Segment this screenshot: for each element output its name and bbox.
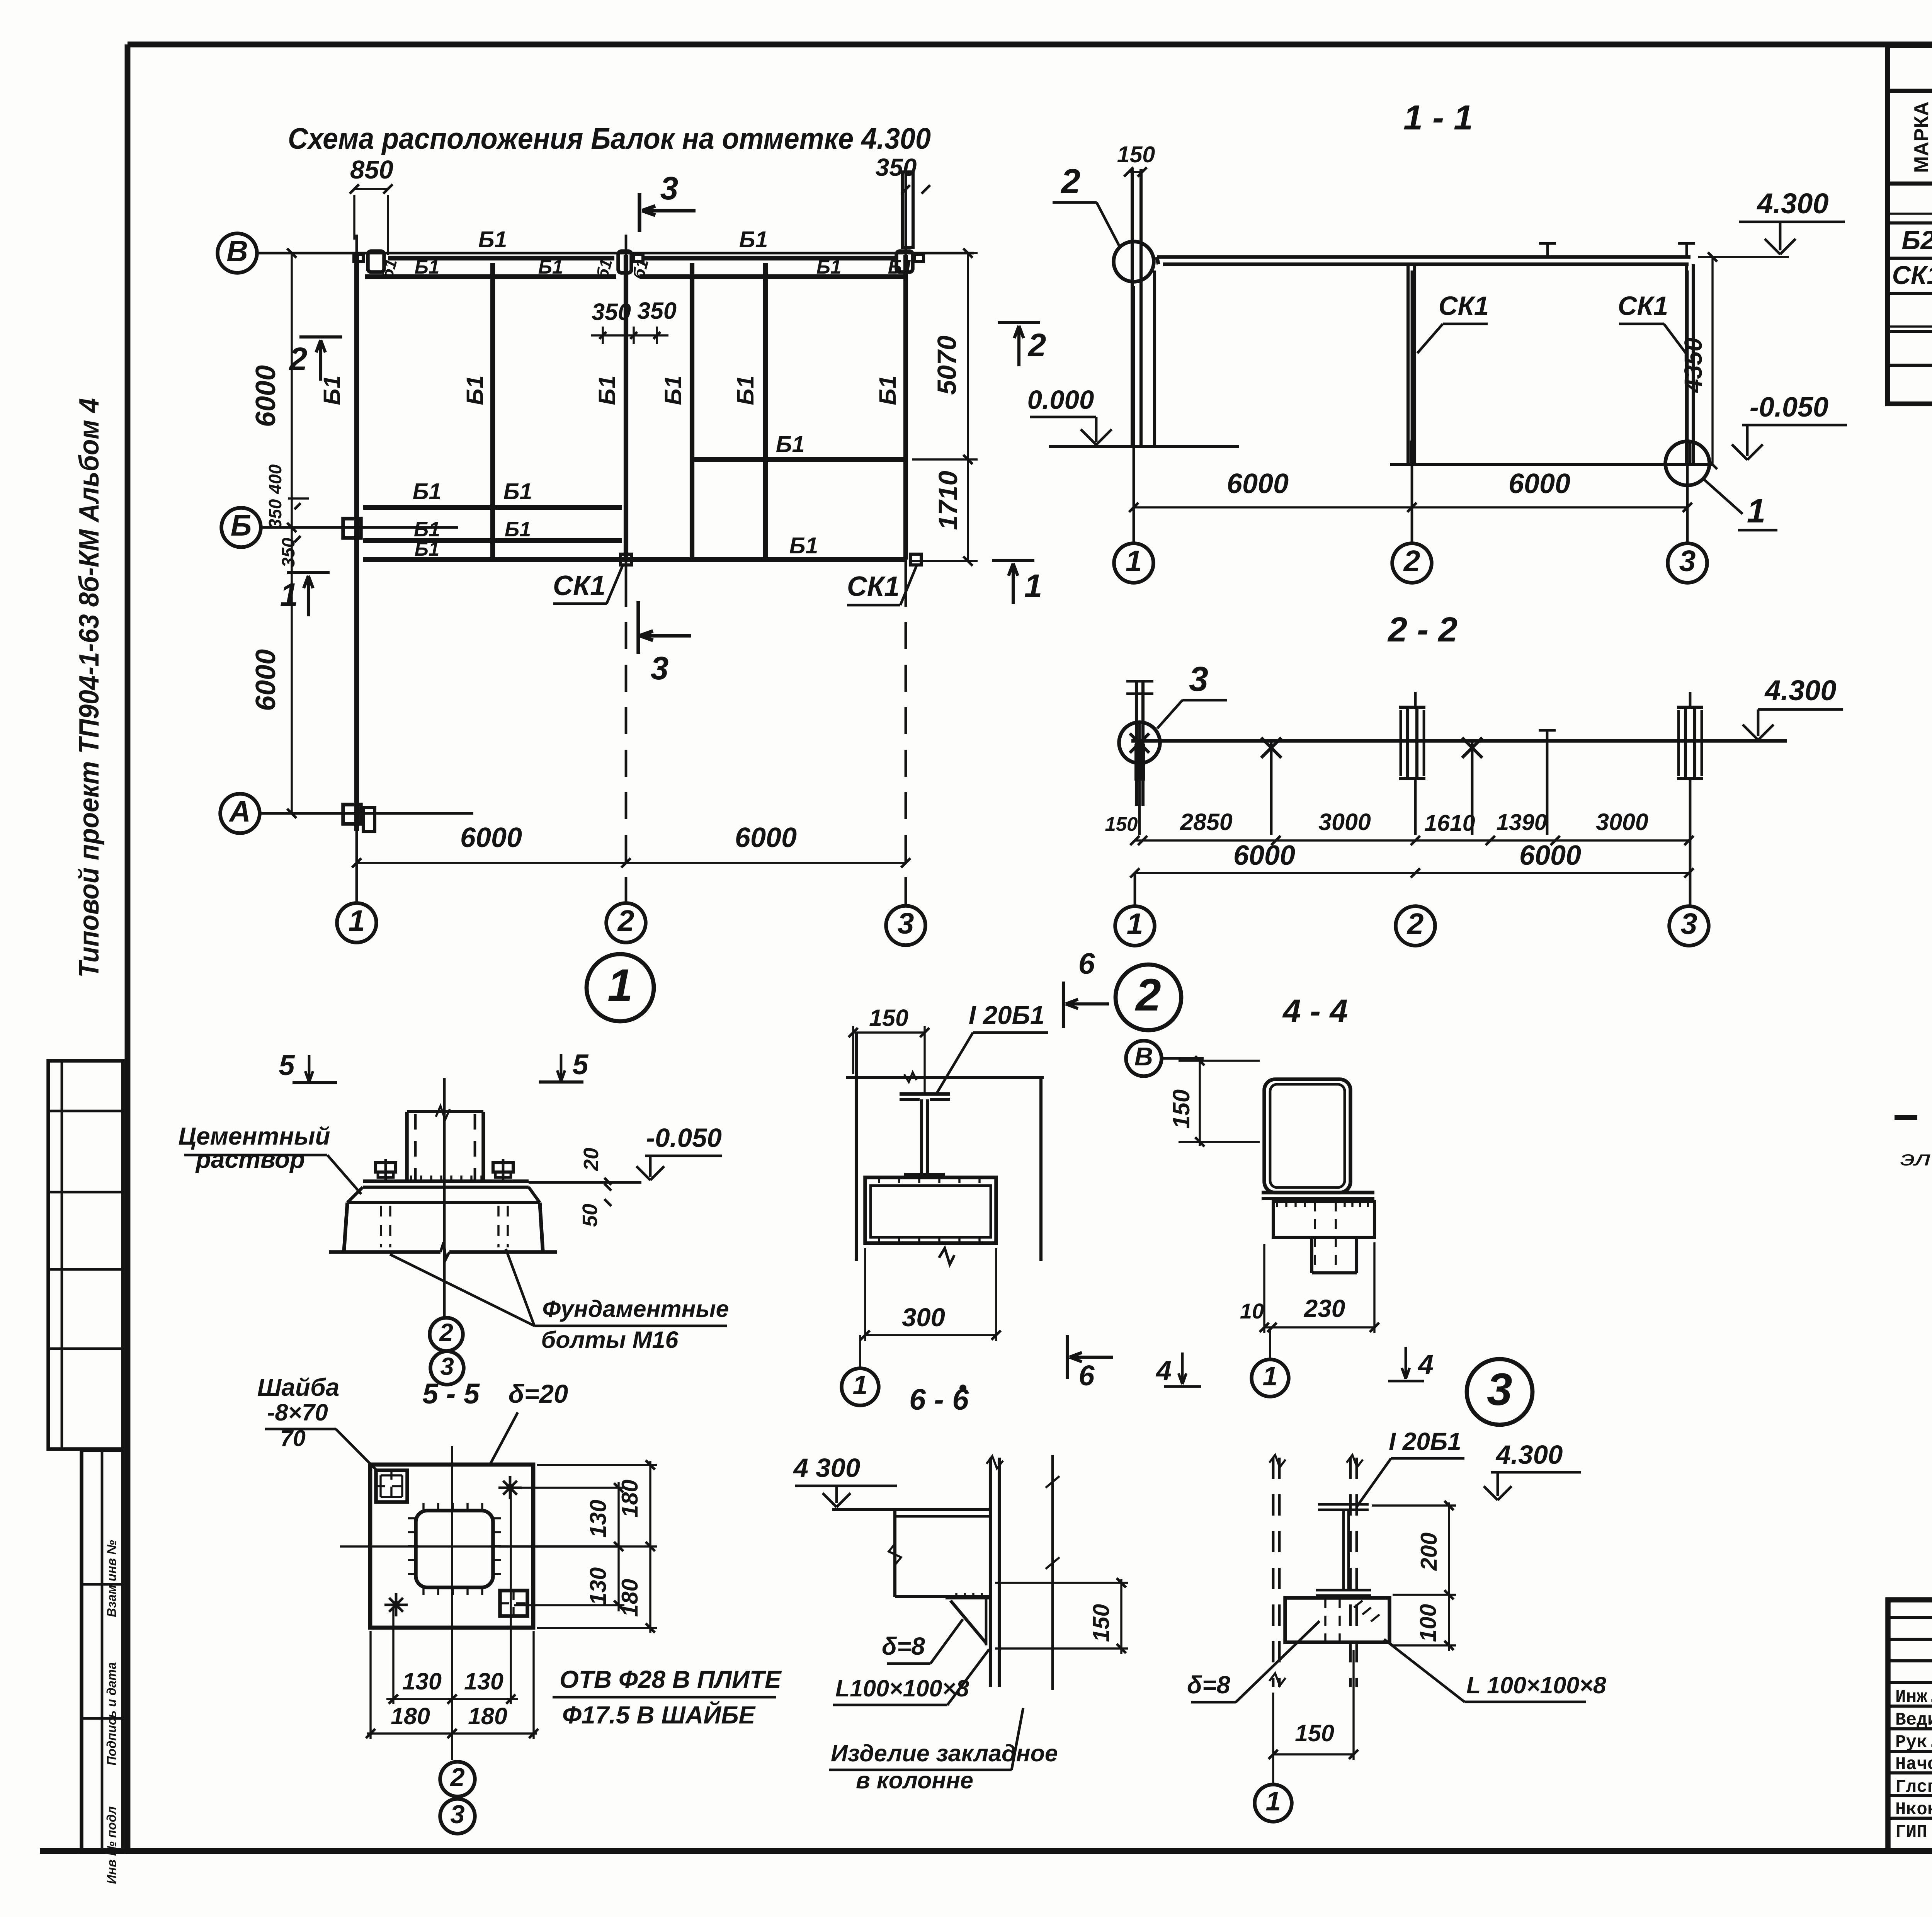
svg-text:СК1: СК1 bbox=[1618, 291, 1668, 321]
svg-text:180: 180 bbox=[468, 1703, 507, 1729]
svg-text:Б1: Б1 bbox=[816, 256, 841, 278]
svg-text:1: 1 bbox=[853, 1370, 868, 1400]
svg-text:Начотд: Начотд bbox=[1895, 1754, 1932, 1774]
svg-text:Шайба: Шайба bbox=[257, 1373, 340, 1401]
svg-text:350: 350 bbox=[592, 299, 631, 325]
svg-text:3: 3 bbox=[1487, 1364, 1512, 1415]
svg-text:δ=8: δ=8 bbox=[1187, 1671, 1230, 1699]
svg-text:-0.050: -0.050 bbox=[1750, 392, 1828, 423]
svg-text:Схема расположения Балок на: Схема расположения Балок на отметке 4.30… bbox=[288, 122, 931, 155]
svg-text:δ=8: δ=8 bbox=[882, 1632, 925, 1660]
svg-text:Вединк: Вединк bbox=[1895, 1710, 1932, 1730]
svg-text:350: 350 bbox=[637, 298, 677, 324]
svg-text:2 - 2: 2 - 2 bbox=[1387, 611, 1458, 649]
svg-text:5070: 5070 bbox=[932, 335, 962, 395]
svg-text:3: 3 bbox=[1679, 544, 1696, 578]
svg-text:Б1: Б1 bbox=[538, 256, 563, 278]
svg-text:Б1: Б1 bbox=[462, 375, 488, 405]
svg-text:4.300: 4.300 bbox=[1495, 1440, 1563, 1470]
svg-text:Инв № подл: Инв № подл bbox=[104, 1807, 119, 1884]
svg-text:Б1: Б1 bbox=[789, 533, 818, 558]
svg-text:Фундаментные: Фундаментные bbox=[542, 1296, 729, 1322]
svg-text:1: 1 bbox=[1126, 544, 1142, 578]
svg-text:В: В bbox=[1134, 1042, 1153, 1071]
svg-text:2: 2 bbox=[1027, 327, 1046, 363]
svg-text:Изделие закладное: Изделие закладное bbox=[831, 1740, 1058, 1766]
svg-text:4: 4 bbox=[1417, 1349, 1434, 1380]
svg-text:СК1: СК1 bbox=[1892, 261, 1932, 290]
svg-text:4 300: 4 300 bbox=[793, 1453, 861, 1483]
svg-text:200: 200 bbox=[1416, 1533, 1442, 1571]
svg-text:А: А bbox=[228, 795, 251, 828]
svg-text:Инж.: Инж. bbox=[1895, 1687, 1932, 1707]
svg-text:180: 180 bbox=[617, 1579, 643, 1617]
svg-text:электродами Э42 по ГОСТ 94: электродами Э42 по ГОСТ 9467-75. bbox=[1900, 1147, 1932, 1170]
svg-text:1710: 1710 bbox=[933, 471, 963, 530]
svg-text:Б1: Б1 bbox=[415, 256, 439, 278]
svg-text:150: 150 bbox=[1088, 1604, 1114, 1642]
svg-text:Б: Б bbox=[231, 509, 252, 542]
svg-text:СК1: СК1 bbox=[1439, 291, 1489, 321]
svg-text:2: 2 bbox=[449, 1763, 464, 1792]
svg-text:4: 4 bbox=[1155, 1356, 1172, 1387]
svg-text:0.000: 0.000 bbox=[1027, 385, 1094, 415]
svg-text:2850: 2850 bbox=[1180, 809, 1233, 835]
svg-text:Ф17.5 В ШАЙБЕ: Ф17.5 В ШАЙБЕ bbox=[562, 1700, 756, 1729]
svg-text:3: 3 bbox=[1681, 907, 1697, 941]
svg-text:Б1: Б1 bbox=[503, 479, 532, 504]
svg-text:Подпись и дата: Подпись и дата bbox=[104, 1662, 119, 1766]
svg-text:350: 350 bbox=[265, 499, 285, 529]
svg-text:ОТВ Ф28 В ПЛИТЕ: ОТВ Ф28 В ПЛИТЕ bbox=[560, 1666, 782, 1693]
svg-text:6000: 6000 bbox=[250, 649, 281, 711]
svg-text:1: 1 bbox=[280, 577, 298, 613]
svg-text:раствор: раствор bbox=[195, 1145, 305, 1173]
svg-text:400: 400 bbox=[265, 464, 285, 494]
svg-text:6000: 6000 bbox=[460, 822, 522, 853]
svg-text:3: 3 bbox=[898, 907, 914, 940]
svg-text:2: 2 bbox=[1406, 907, 1424, 941]
svg-text:2: 2 bbox=[439, 1318, 453, 1346]
svg-text:300: 300 bbox=[902, 1303, 945, 1332]
svg-text:5: 5 bbox=[572, 1048, 589, 1080]
svg-text:Б1: Б1 bbox=[660, 375, 686, 405]
svg-text:6000: 6000 bbox=[1233, 840, 1295, 871]
svg-text:150: 150 bbox=[1105, 813, 1138, 835]
svg-text:150: 150 bbox=[1168, 1089, 1194, 1129]
svg-text:Б1: Б1 bbox=[415, 538, 439, 560]
svg-text:В: В bbox=[226, 235, 248, 268]
svg-text:180: 180 bbox=[391, 1703, 430, 1729]
svg-text:2: 2 bbox=[1060, 162, 1080, 201]
svg-text:-8×70: -8×70 bbox=[267, 1399, 328, 1426]
svg-text:в колонне: в колонне bbox=[856, 1767, 973, 1793]
svg-text:2: 2 bbox=[617, 904, 634, 937]
svg-text:6000: 6000 bbox=[1519, 840, 1581, 871]
svg-text:1: 1 bbox=[1127, 907, 1143, 941]
svg-text:2: 2 bbox=[289, 341, 308, 377]
svg-text:3: 3 bbox=[660, 170, 679, 206]
svg-text:6000: 6000 bbox=[250, 365, 281, 427]
svg-text:150: 150 bbox=[1117, 142, 1155, 167]
svg-text:3: 3 bbox=[1189, 660, 1208, 699]
svg-text:130: 130 bbox=[402, 1668, 442, 1694]
svg-text:50: 50 bbox=[578, 1204, 602, 1227]
svg-text:130: 130 bbox=[464, 1668, 503, 1694]
svg-text:L100×100×8: L100×100×8 bbox=[835, 1675, 969, 1701]
svg-text:1: 1 bbox=[349, 904, 365, 937]
svg-text:Б1: Б1 bbox=[594, 375, 620, 405]
svg-text:10: 10 bbox=[1240, 1299, 1264, 1323]
svg-text:180: 180 bbox=[617, 1480, 643, 1518]
svg-text:Б1: Б1 bbox=[888, 256, 913, 278]
svg-text:Б1: Б1 bbox=[413, 479, 442, 504]
svg-text:2: 2 bbox=[1403, 544, 1420, 578]
svg-text:Б1: Б1 bbox=[739, 227, 768, 252]
svg-text:1: 1 bbox=[1266, 1786, 1281, 1816]
svg-text:СК1: СК1 bbox=[847, 571, 900, 602]
svg-text:6000: 6000 bbox=[1227, 468, 1289, 499]
svg-text:2: 2 bbox=[1135, 970, 1161, 1021]
svg-text:1: 1 bbox=[1263, 1361, 1278, 1391]
svg-text:1: 1 bbox=[1747, 492, 1765, 530]
svg-text:1610: 1610 bbox=[1424, 810, 1475, 836]
svg-text:4.300: 4.300 bbox=[1756, 187, 1828, 219]
svg-text:Взам инв №: Взам инв № bbox=[104, 1540, 119, 1617]
svg-text:Б1: Б1 bbox=[478, 227, 507, 252]
svg-text:1390: 1390 bbox=[1496, 810, 1547, 835]
svg-text:130: 130 bbox=[585, 1500, 611, 1538]
svg-text:3: 3 bbox=[651, 650, 669, 686]
svg-text:850: 850 bbox=[350, 155, 393, 184]
svg-text:Типовой проект ТП904-1-63 8б-К: Типовой проект ТП904-1-63 8б-КМ Альбом 4 bbox=[74, 398, 105, 978]
svg-text:Б1: Б1 bbox=[319, 375, 345, 405]
svg-text:3000: 3000 bbox=[1318, 809, 1371, 835]
svg-text:100: 100 bbox=[1415, 1604, 1441, 1642]
svg-text:1: 1 bbox=[607, 960, 633, 1011]
svg-text:-0.050: -0.050 bbox=[646, 1123, 722, 1153]
svg-text:150: 150 bbox=[1295, 1720, 1334, 1746]
svg-text:СК1: СК1 bbox=[553, 570, 605, 601]
svg-text:5: 5 bbox=[279, 1049, 295, 1081]
svg-text:Б1: Б1 bbox=[414, 518, 440, 541]
svg-text:6000: 6000 bbox=[1509, 468, 1570, 499]
svg-text:3: 3 bbox=[450, 1800, 464, 1829]
svg-text:5 - 5: 5 - 5 bbox=[422, 1378, 480, 1410]
svg-text:I 20Б1: I 20Б1 bbox=[1389, 1427, 1461, 1455]
svg-text:130: 130 bbox=[585, 1567, 611, 1606]
svg-text:болты М16: болты М16 bbox=[541, 1327, 679, 1353]
svg-text:Б1: Б1 bbox=[732, 375, 759, 405]
svg-text:Б1: Б1 bbox=[776, 432, 805, 457]
svg-text:1 - 1: 1 - 1 bbox=[1403, 99, 1473, 137]
svg-text:6000: 6000 bbox=[735, 822, 797, 853]
svg-text:L 100×100×8: L 100×100×8 bbox=[1466, 1672, 1606, 1698]
svg-text:4350: 4350 bbox=[1679, 338, 1707, 393]
svg-text:350: 350 bbox=[876, 153, 917, 181]
svg-text:20: 20 bbox=[580, 1148, 603, 1171]
svg-text:6: 6 bbox=[1078, 947, 1095, 980]
svg-text:Б2: Б2 bbox=[1901, 225, 1932, 255]
svg-text:ГИП: ГИП bbox=[1895, 1822, 1927, 1842]
svg-text:Рук.гр: Рук.гр bbox=[1895, 1732, 1932, 1752]
svg-text:МАРКА: МАРКА bbox=[1910, 102, 1932, 173]
svg-text:150: 150 bbox=[869, 1005, 908, 1031]
svg-text:Б1: Б1 bbox=[505, 518, 531, 541]
svg-text:70: 70 bbox=[280, 1426, 306, 1451]
svg-text:Глспец: Глспец bbox=[1895, 1777, 1932, 1797]
svg-text:Б1: Б1 bbox=[874, 375, 901, 405]
svg-text:4 - 4: 4 - 4 bbox=[1282, 993, 1348, 1029]
svg-text:4.300: 4.300 bbox=[1764, 674, 1836, 706]
svg-text:δ=20: δ=20 bbox=[509, 1380, 568, 1409]
svg-text:6: 6 bbox=[1078, 1359, 1095, 1392]
svg-text:I 20Б1: I 20Б1 bbox=[969, 1001, 1044, 1030]
svg-text:3000: 3000 bbox=[1596, 809, 1648, 835]
svg-text:230: 230 bbox=[1304, 1295, 1345, 1322]
svg-text:3: 3 bbox=[440, 1352, 454, 1380]
svg-text:1: 1 bbox=[1024, 568, 1043, 604]
svg-text:Нконтр: Нконтр bbox=[1895, 1800, 1932, 1820]
